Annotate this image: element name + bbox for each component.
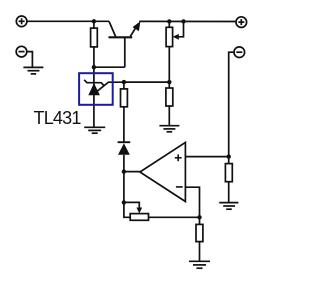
wire P2 right terminal to - input node [149, 216, 200, 218]
wire -OUT terminal down to + input node [229, 52, 235, 156]
TL431 zener bar with bent ends [84, 80, 104, 86]
junction dot node C [167, 80, 171, 84]
wire output node to op-amp apex [124, 171, 140, 173]
terminal -IN (left, below +IN) [16, 46, 27, 57]
wire node D to node C [124, 81, 169, 83]
potentiometer P2 wiper wire [124, 202, 139, 208]
wire -IN terminal to ground [27, 52, 33, 68]
wire diode to output node [123, 155, 125, 172]
terminal +OUT (top right) [236, 17, 247, 28]
junction dot - input node [197, 215, 201, 219]
TL431 reference lead [97, 82, 124, 91]
potentiometer P1 body [166, 27, 173, 46]
transistor Q1 (NPN pass transistor) [109, 22, 139, 68]
potentiometer P1 wiper wire [176, 21, 184, 36]
wire R6 top stem [199, 217, 201, 224]
TL431 shunt regulator U2 : cathode line [93, 67, 95, 127]
wire P1 top stem [168, 21, 170, 27]
op-amp U1 minus input marker [176, 186, 183, 188]
svg-text:TL431: TL431 [34, 108, 82, 128]
ground G2 (TL431 anode) [84, 127, 105, 133]
ground G1 (input minus) [23, 67, 43, 74]
resistor R2 [121, 89, 128, 107]
junction dot wiper node [122, 200, 126, 204]
op-amp U1 (pointing left) [140, 142, 186, 201]
wire R1 top stem [93, 21, 95, 28]
junction dot node B [92, 65, 96, 69]
wire top rail right segment [139, 20, 236, 22]
terminal -OUT (right) [234, 47, 245, 58]
wire wiper node down to P2 left terminal [124, 202, 130, 217]
TL431 highlight box (blue) [79, 73, 113, 105]
wire R1 bottom stem to node B [93, 47, 95, 67]
diode D1 cathode bar [118, 141, 131, 143]
resistor R5 [225, 164, 232, 182]
potentiometer P2 wiper arrowhead [136, 208, 142, 214]
junction dot op-amp output node [122, 169, 126, 173]
wire R5 top stem [228, 157, 230, 164]
junction dot node D (ref node) [122, 80, 126, 84]
wire output node down to wiper node [123, 172, 125, 203]
transistor Q1 emitter arrowhead [133, 21, 141, 31]
resistor R1 [91, 28, 98, 47]
junction dot rail/pot P1 top [167, 19, 171, 23]
ground G3 (R4) [159, 126, 179, 132]
wire top rail left segment [27, 20, 109, 22]
wire R6 bottom to ground [199, 242, 201, 262]
resistor R6 [196, 224, 203, 241]
potentiometer P1 wiper arrowhead [173, 34, 179, 40]
wire R2 bottom to diode [123, 107, 125, 142]
diode D1 anode triangle (pointing up) [118, 143, 130, 155]
wire op-amp + input to right node [185, 156, 228, 158]
wire op-amp - input over and down [185, 187, 199, 217]
potentiometer P2 body [130, 214, 148, 221]
wire R4 bottom to ground [168, 106, 170, 126]
wire R2 top stem [123, 82, 125, 89]
junction dot + input node [227, 154, 231, 158]
wire R5 bottom to ground [228, 182, 230, 203]
ground G5 (R6) [189, 261, 210, 268]
op-amp U1 plus input marker [175, 154, 182, 161]
wire node B to transistor base [94, 66, 125, 68]
resistor R4 [166, 88, 173, 106]
TL431 anode triangle [88, 83, 100, 95]
ground G4 (R5) [219, 203, 238, 210]
wire P1 bottom to node C [168, 47, 170, 82]
terminal +IN (top left) [16, 16, 27, 27]
junction dot rail/pot P1 wiper [181, 19, 185, 23]
junction dot rail/R1 [92, 19, 96, 23]
wire R4 top stem [168, 82, 170, 88]
